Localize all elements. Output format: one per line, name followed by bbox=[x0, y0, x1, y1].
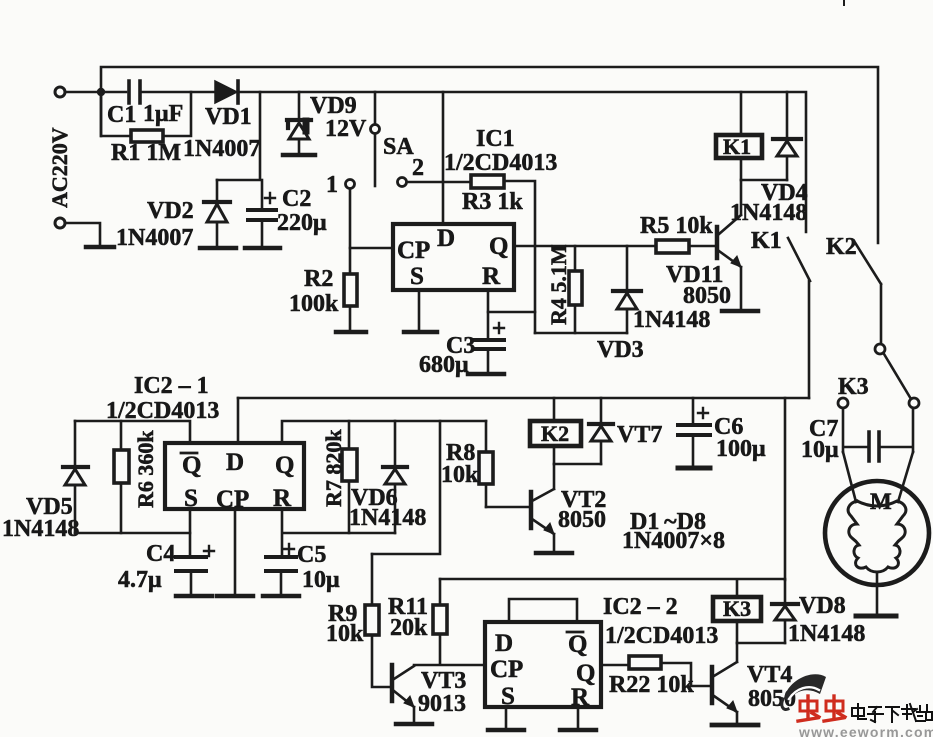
svg-text:R3 1k: R3 1k bbox=[462, 189, 523, 215]
diode VD6 bbox=[394, 421, 397, 465]
plus C6 bbox=[698, 408, 708, 418]
capacitor C6 bbox=[692, 398, 695, 465]
wire SA1 to CP bbox=[350, 189, 393, 248]
svg-text:VT7: VT7 bbox=[617, 422, 662, 448]
resistor R8 bbox=[485, 421, 488, 507]
resistor R7 bbox=[348, 421, 351, 533]
wire S down bbox=[189, 509, 192, 556]
svg-text:R22 10k: R22 10k bbox=[609, 672, 694, 698]
wire CP down bbox=[234, 509, 237, 594]
resistor R11 bbox=[439, 579, 442, 664]
wire K1 VD4 bottom bbox=[741, 179, 787, 182]
wire R down bbox=[282, 509, 395, 556]
svg-text:100μ: 100μ bbox=[716, 436, 766, 462]
transistor VD11 bbox=[715, 227, 720, 258]
svg-text:VT4: VT4 bbox=[747, 662, 792, 688]
ground motor bbox=[856, 614, 896, 619]
svg-text:CP: CP bbox=[216, 486, 249, 513]
ground VD11 bbox=[722, 309, 758, 314]
svg-text:Q: Q bbox=[568, 631, 587, 658]
capacitor C2 bbox=[261, 180, 264, 208]
capacitor C3 bbox=[474, 340, 504, 349]
diode VD1 bbox=[215, 81, 237, 103]
transistor VT3 bbox=[390, 665, 395, 701]
relay K1 bbox=[740, 92, 743, 180]
ground VD2 bbox=[200, 246, 236, 251]
svg-text:R4 5.1M: R4 5.1M bbox=[546, 244, 571, 325]
diode VD4 bbox=[786, 92, 789, 137]
resistor R4 bbox=[574, 246, 577, 333]
svg-text:R7 820k: R7 820k bbox=[321, 429, 346, 507]
resistor R1 bbox=[101, 92, 191, 136]
svg-text:8050: 8050 bbox=[683, 283, 731, 309]
ground S IC1 bbox=[404, 330, 437, 335]
resistor R5 bbox=[656, 240, 689, 253]
svg-text:100k: 100k bbox=[289, 291, 339, 317]
svg-text:K2: K2 bbox=[826, 234, 857, 260]
resistor R2 bbox=[349, 248, 352, 330]
logo text dianzi bbox=[852, 704, 932, 722]
wire D Qbar loop bbox=[509, 599, 577, 622]
svg-text:Q: Q bbox=[182, 452, 201, 479]
motor M bbox=[843, 452, 913, 502]
svg-text:R2: R2 bbox=[304, 266, 333, 292]
wire S ground IC2-2 bbox=[505, 707, 508, 728]
diode VD2 bbox=[216, 180, 219, 202]
svg-text:IC2 – 1: IC2 – 1 bbox=[134, 373, 209, 399]
diode VD8 bbox=[784, 580, 787, 602]
svg-text:1N4148: 1N4148 bbox=[788, 621, 865, 647]
ground S IC2-2 bbox=[488, 728, 524, 733]
svg-text:1μF: 1μF bbox=[143, 101, 183, 127]
capacitor C4 bbox=[176, 557, 206, 571]
svg-text:IC2 – 2: IC2 – 2 bbox=[603, 594, 678, 620]
svg-text:VD2: VD2 bbox=[147, 198, 194, 224]
wire reset bottom bbox=[535, 332, 627, 335]
svg-text:CP: CP bbox=[490, 656, 523, 683]
svg-text:1N4007×8: 1N4007×8 bbox=[622, 528, 725, 554]
wire top rail bbox=[101, 67, 878, 243]
diode VD3 bbox=[626, 246, 629, 289]
wire R ground IC2-2 bbox=[577, 707, 580, 728]
wire K3 VD8 bottom bbox=[737, 642, 785, 645]
op-amp IC2-2 box bbox=[485, 622, 601, 707]
svg-text:K2: K2 bbox=[541, 421, 569, 446]
svg-text:9013: 9013 bbox=[418, 691, 466, 717]
svg-text:C2: C2 bbox=[282, 186, 311, 212]
capacitor C7 bbox=[843, 408, 913, 452]
svg-text:www.eeworm.com: www.eeworm.com bbox=[798, 724, 933, 737]
svg-text:IC1: IC1 bbox=[476, 126, 515, 152]
wire Q branch to R9 bbox=[372, 421, 440, 554]
svg-text:220μ: 220μ bbox=[277, 210, 327, 236]
relay K3 bbox=[736, 580, 739, 643]
svg-text:R: R bbox=[571, 684, 590, 711]
svg-text:S: S bbox=[410, 263, 424, 290]
wire Q output bbox=[514, 245, 716, 248]
ground C5 bbox=[263, 594, 299, 599]
svg-text:R: R bbox=[482, 263, 501, 290]
transistor VT4 bbox=[710, 667, 715, 703]
wire R pin down bbox=[487, 290, 490, 338]
svg-text:1N4007: 1N4007 bbox=[183, 136, 260, 162]
resistor R3 bbox=[471, 175, 504, 188]
switch SA bbox=[374, 92, 377, 124]
logo chongchong red bbox=[798, 696, 845, 721]
svg-text:K1: K1 bbox=[751, 228, 782, 254]
plus C4 bbox=[204, 546, 214, 556]
ground bar neutral bbox=[86, 245, 114, 250]
svg-text:12V: 12V bbox=[325, 116, 367, 142]
transistor VT2 bbox=[532, 464, 554, 501]
svg-text:1N4148: 1N4148 bbox=[2, 516, 79, 542]
wire IC2-1 bottom rail bbox=[75, 532, 190, 535]
op-amp IC2-1 box bbox=[165, 443, 304, 509]
svg-text:K3: K3 bbox=[838, 374, 869, 400]
terminal bottom AC input bbox=[55, 218, 65, 228]
svg-text:D: D bbox=[437, 225, 455, 252]
wire Q rail bbox=[282, 421, 486, 443]
svg-text:Q: Q bbox=[489, 233, 508, 260]
ground C6 bbox=[678, 466, 710, 471]
svg-text:CP: CP bbox=[397, 237, 430, 264]
svg-text:1N4148: 1N4148 bbox=[730, 200, 807, 226]
svg-text:20k: 20k bbox=[390, 615, 428, 641]
plus C5 bbox=[284, 544, 294, 554]
wire S to ground bbox=[418, 290, 421, 330]
svg-text:1/2CD4013: 1/2CD4013 bbox=[605, 623, 718, 649]
svg-text:VD3: VD3 bbox=[597, 337, 644, 363]
svg-text:K1: K1 bbox=[723, 134, 751, 159]
plus C2 bbox=[265, 193, 275, 203]
node contact 2 bbox=[398, 178, 407, 187]
plus C3 bbox=[494, 323, 504, 333]
svg-text:1N4007: 1N4007 bbox=[116, 225, 193, 251]
svg-text:C5: C5 bbox=[297, 542, 326, 568]
motor winding bbox=[848, 501, 906, 572]
wire terminal to junction bbox=[66, 91, 97, 94]
svg-text:D: D bbox=[226, 449, 244, 476]
wire R pin branch bbox=[488, 311, 535, 314]
ground R IC2-2 bbox=[560, 728, 596, 733]
op-amp IC1 box bbox=[393, 224, 514, 290]
svg-text:1N4148: 1N4148 bbox=[349, 505, 426, 531]
wire Qbar top rail bbox=[75, 421, 190, 443]
wire VD2 C2 branch bbox=[217, 92, 260, 180]
wire main mid rail bbox=[238, 397, 809, 400]
ground C3 bbox=[468, 372, 504, 377]
capacitor C1 bbox=[104, 91, 214, 94]
svg-text:C4: C4 bbox=[146, 541, 175, 567]
resistor R6 bbox=[120, 421, 123, 533]
wire K3 coil rail bbox=[440, 578, 785, 581]
svg-text:R6 360k: R6 360k bbox=[133, 430, 158, 508]
diode VD5 bbox=[74, 421, 77, 465]
wire SA2 to R3 bbox=[407, 181, 471, 184]
svg-text:AC220V: AC220V bbox=[47, 127, 72, 208]
svg-text:Q: Q bbox=[275, 452, 294, 479]
ground VT4 bbox=[712, 723, 758, 728]
svg-text:1: 1 bbox=[326, 172, 338, 198]
wire riser to K3 rail bbox=[784, 398, 787, 580]
resistor R22 bbox=[601, 663, 711, 686]
zener VD9 bbox=[298, 92, 301, 118]
svg-text:1/2CD4013: 1/2CD4013 bbox=[444, 150, 557, 176]
relay K2 bbox=[553, 398, 556, 464]
svg-text:10μ: 10μ bbox=[801, 437, 839, 463]
svg-text:R1 1M: R1 1M bbox=[111, 140, 181, 166]
svg-text:SA: SA bbox=[383, 134, 414, 160]
ground C2 bbox=[245, 246, 280, 251]
svg-text:C1: C1 bbox=[107, 102, 136, 128]
svg-text:10μ: 10μ bbox=[302, 567, 340, 593]
svg-text:VD1: VD1 bbox=[205, 104, 252, 130]
svg-text:1N4148: 1N4148 bbox=[633, 307, 710, 333]
ground C4 bbox=[176, 594, 212, 599]
svg-text:8050: 8050 bbox=[558, 507, 606, 533]
svg-text:K3: K3 bbox=[723, 596, 751, 621]
wire terminal2 bbox=[66, 223, 100, 245]
ground CP IC2-1 bbox=[217, 594, 253, 599]
ground R2 bbox=[336, 330, 366, 335]
svg-text:S: S bbox=[501, 683, 515, 710]
svg-text:2: 2 bbox=[412, 155, 424, 181]
svg-text:M: M bbox=[870, 489, 892, 514]
wire D riser bbox=[237, 398, 240, 443]
svg-text:D: D bbox=[495, 630, 513, 657]
capacitor C5 bbox=[266, 557, 296, 571]
resistor R9 bbox=[372, 554, 391, 687]
svg-text:Q: Q bbox=[576, 660, 595, 687]
svg-text:10k: 10k bbox=[441, 462, 479, 488]
ground VT2 bbox=[536, 551, 572, 556]
svg-text:680μ: 680μ bbox=[419, 352, 469, 378]
node contact 1 bbox=[346, 180, 355, 189]
ground VT3 bbox=[396, 722, 432, 727]
wire main rail after VD1 bbox=[240, 92, 806, 232]
svg-text:R5 10k: R5 10k bbox=[640, 213, 713, 239]
svg-text:10k: 10k bbox=[326, 621, 364, 647]
svg-text:4.7μ: 4.7μ bbox=[118, 567, 162, 593]
logo cap bbox=[784, 674, 826, 702]
node junction dot bbox=[97, 88, 105, 96]
wire R3 to reset net bbox=[504, 181, 535, 333]
wire D input bbox=[442, 92, 445, 224]
diode VT7 bbox=[600, 398, 603, 422]
svg-text:VD8: VD8 bbox=[799, 593, 846, 619]
terminal top AC input bbox=[55, 87, 65, 97]
wire top tick bbox=[843, 0, 845, 5]
wire K2 VT7 bottom bbox=[554, 463, 601, 466]
ground VD9 bbox=[283, 153, 315, 158]
